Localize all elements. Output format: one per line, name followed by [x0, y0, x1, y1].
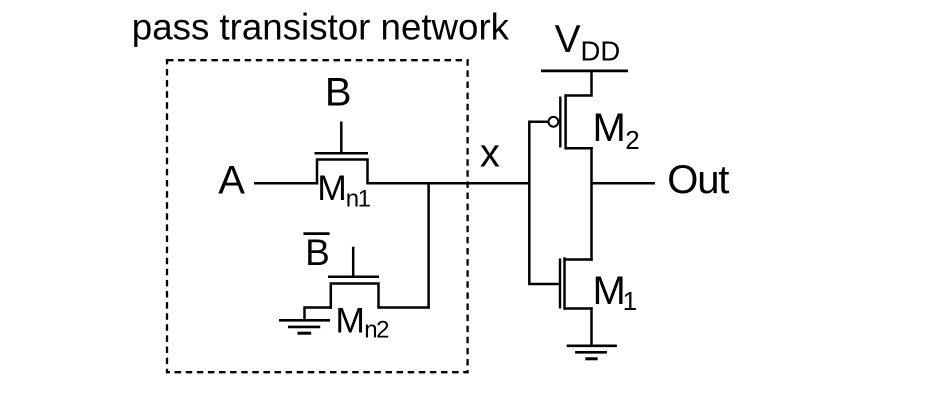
transistor M2 drain lead [565, 147, 593, 150]
svg-text:1: 1 [623, 286, 637, 316]
transistor M1 drain lead [564, 258, 593, 261]
transistor Mn2 gate lead [352, 247, 355, 278]
dashed box: pass transistor network boundary [167, 60, 468, 372]
transistor Mn1 gate lead [340, 122, 343, 155]
transistor M2 gate bar [559, 97, 561, 148]
wire: inverter input vertical (gates of M1/M2) [528, 122, 531, 284]
wire: Mn2 source to ground [305, 306, 333, 309]
transistor M1 source lead [564, 307, 593, 310]
transistor Mn1 channel hump [317, 160, 368, 185]
transistor M2 channel bar [564, 94, 567, 149]
wire: M1 gate [528, 283, 559, 286]
svg-text:Out: Out [667, 158, 729, 202]
svg-text:M: M [593, 106, 626, 150]
wire: output [592, 182, 656, 185]
svg-text:A: A [218, 158, 245, 202]
svg-text:2: 2 [625, 125, 639, 155]
svg-text:DD: DD [581, 36, 621, 67]
svg-text:x: x [480, 131, 500, 175]
wire: Mn2 drain [379, 306, 430, 309]
svg-text:B: B [325, 70, 352, 114]
svg-text:pass transistor network: pass transistor network [132, 6, 510, 47]
svg-text:M: M [593, 269, 626, 313]
svg-text:B: B [305, 232, 330, 273]
transistor M1 gate bar [559, 259, 561, 309]
svg-text:M: M [317, 168, 347, 208]
wire: M2 gate [528, 121, 548, 124]
transistor M1 channel bar [563, 257, 566, 309]
svg-text:n1: n1 [346, 186, 371, 213]
ground (under Mn2) [279, 319, 330, 322]
transistor M2 source lead to VDD [565, 72, 592, 96]
wire: M2 drain to M1 drain [590, 147, 593, 261]
wire: node X branch down to Mn2 drain [427, 183, 430, 308]
wire: M1 source to ground [590, 307, 593, 346]
svg-text:n2: n2 [364, 317, 389, 344]
transistor Mn1 gate bar [315, 152, 369, 155]
svg-text:M: M [335, 301, 365, 341]
ground (under M1) [567, 344, 617, 347]
svg-text:V: V [555, 18, 581, 61]
wire: Mn1 drain to node X / inverter input [368, 182, 531, 185]
VDD rail [541, 70, 628, 73]
transistor Mn2 gate bar [328, 276, 379, 279]
bubble of pmos M2 [549, 117, 559, 127]
wire: A to Mn1 source [254, 182, 318, 185]
transistor Mn2 channel hump [331, 284, 379, 309]
